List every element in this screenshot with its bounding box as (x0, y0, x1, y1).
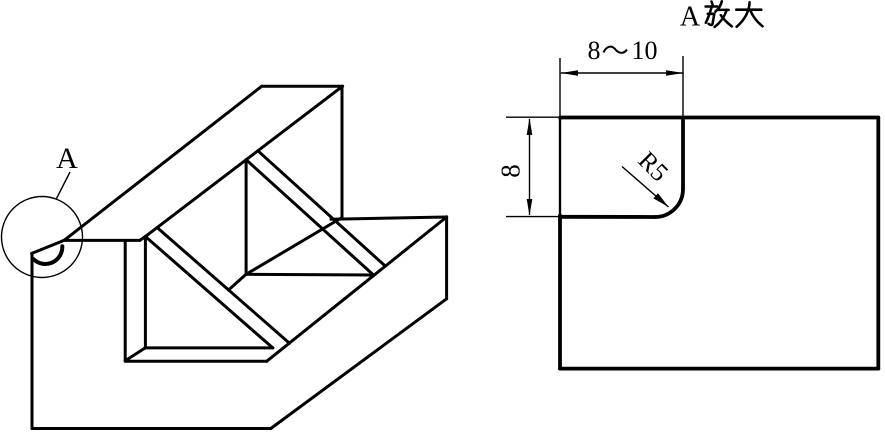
front column right vertical edge (124, 240, 127, 360)
step base junction edge (246, 218, 342, 275)
rib 1 vertical edge (144, 237, 147, 348)
detail circle A (2, 197, 83, 278)
small receding bevel at column top (140, 236, 146, 240)
corner shallow edge at detail A (32, 240, 65, 253)
rib 1 hypotenuse rear line (157, 228, 289, 344)
svg-text:A: A (680, 2, 701, 33)
arrow down of dim 8 (527, 199, 533, 216)
svg-text:8: 8 (588, 36, 601, 65)
base plate front-top edge (125, 360, 267, 363)
detail rect left edge upper part (559, 118, 561, 218)
leader line R5 (622, 167, 669, 208)
dimension line 8~10 (561, 72, 684, 74)
rib 1 hypotenuse front line (145, 237, 272, 348)
rib 2 bottom edge (246, 273, 373, 277)
small receding bevel at base front (125, 348, 145, 361)
rib 2 hypotenuse front line (246, 160, 373, 275)
arrow up of dim 8 (527, 118, 533, 135)
rib 2 vertical edge (245, 160, 248, 275)
leader line to label A (57, 172, 71, 199)
detail rect right edge (876, 118, 880, 369)
groove bottom line (560, 215, 655, 219)
dimension line 8 (529, 119, 531, 215)
groove fillet R5 (655, 189, 683, 217)
arrow of leader R5 (653, 193, 668, 207)
rib 2 foot receding edge (229, 274, 247, 290)
top end edge of inclined plate (262, 85, 343, 88)
step front vertical edge (341, 86, 344, 217)
svg-text:8: 8 (496, 164, 526, 178)
step top rear horizontal edge (331, 217, 447, 219)
svg-text:A: A (56, 142, 78, 175)
hanzi FANG (enlarge) (706, 1, 732, 27)
inclined plate lower-right long edge (146, 86, 343, 236)
groove right wall (681, 118, 685, 190)
front column top horizontal edge (64, 239, 140, 242)
extension line left for dim 8~10 (559, 58, 561, 117)
rib 1 bottom edge (145, 346, 272, 349)
extension line bottom for dim 8 (506, 216, 558, 218)
detail rect top edge (560, 116, 878, 120)
rib 2 hypotenuse rear line (258, 151, 385, 266)
bracket bottom edge (32, 427, 271, 430)
bracket bottom-right receding edge (271, 299, 447, 429)
relief groove arc at corner A (34, 246, 63, 264)
bracket left edge (31, 254, 34, 429)
svg-text:10: 10 (632, 36, 658, 65)
arrow right of dim 8~10 (666, 70, 684, 76)
arrow left of dim 8~10 (561, 70, 578, 76)
bracket right rear vertical edge (445, 217, 448, 299)
extension line right for dim 8~10 (682, 56, 684, 118)
detail rect left edge lower part (558, 216, 562, 369)
base top-right receding edge (267, 217, 447, 361)
inclined plate upper-left long edge (64, 86, 262, 240)
detail rect bottom edge (560, 367, 878, 371)
dimension text 8~10 (588, 36, 658, 65)
extension line top for dim 8 (506, 116, 558, 118)
hanzi DA (big) (736, 2, 762, 27)
